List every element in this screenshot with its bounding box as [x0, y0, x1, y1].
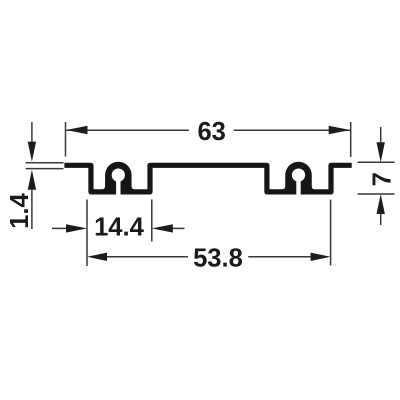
- svg-text:63: 63: [197, 118, 225, 146]
- svg-text:7: 7: [368, 172, 396, 186]
- svg-text:14.4: 14.4: [94, 213, 145, 241]
- svg-text:1.4: 1.4: [6, 193, 34, 229]
- svg-text:53.8: 53.8: [193, 245, 243, 273]
